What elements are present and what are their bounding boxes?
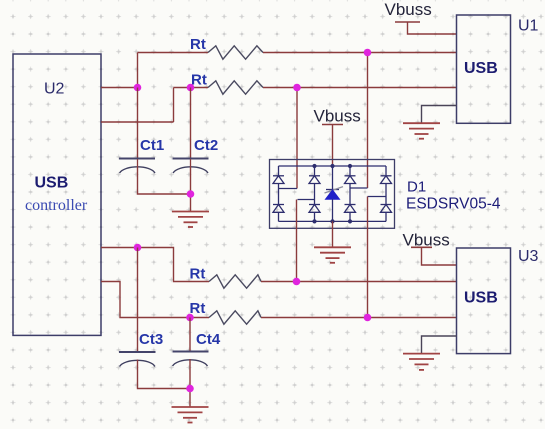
- svg-text:U1: U1: [518, 18, 539, 35]
- svg-text:U2: U2: [44, 81, 65, 98]
- resistor R1 (Rt): [208, 46, 263, 59]
- diode D1e (col3 top): [345, 166, 356, 205]
- wire net1: R1 output to U1: [263, 52, 457, 54]
- svg-text:Vbuss: Vbuss: [385, 0, 432, 19]
- junction net2/IO1: [293, 84, 301, 92]
- wire Ct2 bottom to ground: [190, 166, 192, 212]
- ground (U1): [403, 123, 440, 139]
- wire D1 col3 jog to IO2: [350, 187, 368, 189]
- svg-text:Rt: Rt: [190, 266, 206, 283]
- wire net1: vertical riser to top row: [137, 53, 139, 88]
- resistor R4 (Rt): [209, 311, 261, 324]
- wire U3 ground stub: [422, 336, 457, 353]
- svg-text:USB: USB: [464, 290, 498, 307]
- wire net4: U2 pin4: [101, 282, 209, 318]
- wire net1: IO2 drop to D1: [367, 53, 369, 189]
- svg-text:Ct1: Ct1: [140, 137, 164, 154]
- wire Vbuss mid stem into D1: [332, 125, 334, 167]
- wire Ct1 stem from net1 junction: [137, 88, 139, 159]
- wire Ct4 stem: [189, 318, 191, 352]
- wire Vbuss bottom to U3: [422, 247, 457, 265]
- wire net4: IO4 riser to D1: [367, 197, 369, 318]
- capacitor Ct4: [173, 351, 209, 353]
- svg-text:Vbuss: Vbuss: [314, 107, 361, 126]
- diode D1f (col3 bottom): [345, 205, 356, 222]
- component U1 USB box: [457, 15, 511, 123]
- capacitor Ct2: [173, 158, 209, 160]
- D1 top rail: [279, 165, 387, 167]
- svg-text:Ct2: Ct2: [194, 137, 218, 154]
- wire net3: jog to R3: [138, 248, 210, 282]
- junction net1 at Ct1: [134, 84, 142, 92]
- wire Ct3 stem: [137, 248, 139, 353]
- wire U1 ground stub: [422, 106, 457, 124]
- wire D1 col2 jog to IO3: [298, 199, 315, 201]
- diode D1d (col2 bottom): [309, 205, 320, 222]
- ground (below Ct2): [172, 212, 209, 228]
- wire Ct3 bottom jog: [138, 360, 191, 389]
- wire Ct4 bottom to ground: [189, 359, 191, 407]
- diode D1b (col1 bottom): [273, 205, 284, 222]
- wire net3: IO3 riser to D1: [296, 200, 298, 282]
- component D1 box: [270, 160, 395, 229]
- svg-text:U3: U3: [518, 248, 539, 265]
- wire D1 col4 jog to IO4: [368, 196, 387, 198]
- capacitor Ct3: [119, 351, 156, 353]
- diode D1a (col1 top): [273, 166, 284, 205]
- junction net4/IO4: [364, 314, 372, 322]
- D1 bottom rail: [279, 220, 387, 222]
- wire net2: R2 output to U1: [263, 87, 457, 89]
- svg-text:ESDSRV05-4: ESDSRV05-4: [406, 196, 501, 213]
- ground (below D1): [314, 247, 351, 262]
- TVS diode (center, filled): [325, 166, 344, 221]
- wire Vbuss top to U1: [408, 22, 457, 34]
- svg-text:Ct4: Ct4: [196, 331, 221, 348]
- diode D1h (col4 bottom): [381, 205, 392, 222]
- component U2 USB controller box: [13, 54, 101, 335]
- wire net2: U2 pin2 horizontal: [101, 121, 174, 123]
- svg-text:USB: USB: [464, 60, 498, 77]
- wire net1: horizontal into R1: [138, 52, 209, 54]
- ground (below Ct4): [172, 407, 209, 423]
- svg-text:controller: controller: [25, 197, 88, 214]
- junction net1/IO2: [364, 49, 372, 57]
- wire net2: into R2: [174, 87, 209, 89]
- svg-text:Ct3: Ct3: [139, 331, 163, 348]
- svg-text:D1: D1: [407, 179, 426, 196]
- diode D1c (col2 top): [309, 166, 320, 205]
- junction net4 at Ct4: [186, 314, 194, 322]
- wire net3: R3 output to U3: [261, 281, 457, 283]
- resistor R2 (Rt): [208, 81, 263, 94]
- capacitor Ct1: [119, 158, 155, 160]
- junction net3 at Ct3: [134, 244, 142, 252]
- wire Ct1 bottom jog: [138, 166, 191, 194]
- wire D1 ground stem: [332, 221, 334, 247]
- svg-text:Rt: Rt: [190, 36, 206, 53]
- diode D1g (col4 top): [381, 166, 392, 205]
- ground (U3): [403, 354, 440, 370]
- node dots on D1 rails: [312, 164, 352, 224]
- wire net2: IO1 drop to D1: [296, 88, 298, 189]
- wire D1 col1 jog to IO1: [279, 188, 298, 190]
- junction net3/IO3: [293, 278, 301, 286]
- wire net2: vertical jog up: [173, 88, 175, 123]
- svg-text:USB: USB: [35, 175, 69, 192]
- junction net2 at Ct2: [187, 84, 195, 92]
- wire net3: U2 pin3 to junction: [101, 247, 138, 249]
- junction Ct3/Ct4 ground net: [186, 385, 194, 393]
- component U3 USB box: [457, 248, 511, 354]
- wire net4: R4 output to U3: [261, 317, 457, 319]
- junction Ct1/Ct2 ground net: [187, 190, 195, 198]
- resistor R3 (Rt): [209, 275, 261, 288]
- wire Ct2 stem from net2 junction: [190, 88, 192, 159]
- wire net1: U2 pin1 to junction: [101, 87, 138, 89]
